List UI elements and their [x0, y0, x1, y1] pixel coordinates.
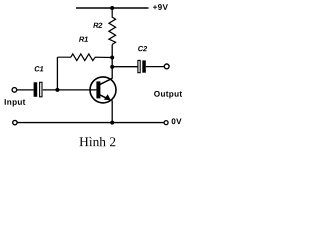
resistor R1: [57, 54, 112, 61]
svg-text:0V: 0V: [171, 117, 182, 126]
transistor Q1: [90, 77, 116, 103]
svg-text:C1: C1: [34, 64, 43, 73]
svg-text:C2: C2: [138, 44, 148, 53]
wire: C2 to output terminal: [146, 66, 164, 68]
wire: C2 branch: [112, 66, 138, 68]
wire: C1 to transistor base: [43, 89, 97, 91]
node: R1 junction dot: [110, 56, 114, 60]
wire: collector node vertical: [111, 45, 113, 79]
wire: bottom 0V rail: [17, 122, 164, 124]
terminal: output circle: [164, 64, 169, 69]
terminal: bottom-left circle: [13, 120, 17, 124]
wire: top +9V rail: [76, 7, 149, 9]
node: base junction dot: [55, 88, 59, 92]
terminal: bottom-right circle: [164, 121, 168, 125]
wire: input to C1: [17, 89, 34, 91]
terminal: input circle: [12, 88, 17, 93]
svg-text:Output: Output: [154, 90, 183, 99]
svg-text:R1: R1: [79, 35, 88, 44]
svg-text:Input: Input: [4, 98, 26, 107]
svg-text:+9V: +9V: [153, 3, 169, 12]
wire: emitter vertical down: [111, 100, 113, 122]
capacitor C2: [138, 60, 146, 72]
capacitor C1: [34, 82, 42, 97]
resistor R2: [109, 8, 116, 45]
node: top rail junction dot: [110, 6, 114, 10]
node: emitter junction dot: [110, 121, 114, 125]
node: C2 junction dot: [110, 65, 114, 69]
wire: R1 left leg down to base: [56, 57, 58, 90]
svg-text:R2: R2: [93, 21, 103, 30]
svg-text:Hình 2: Hình 2: [79, 134, 116, 149]
